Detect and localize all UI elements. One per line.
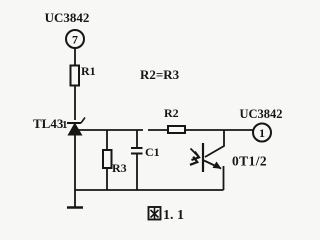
label UC3842 (top-right): [239, 107, 282, 121]
label C1: [145, 145, 160, 159]
optocoupler phototransistor OT1/2: collector wire: [205, 130, 224, 157]
caption figure 1.1: [149, 207, 185, 223]
wire pin7 to R1: [74, 48, 76, 66]
label OT1/2: [232, 154, 267, 169]
resistor R3: [103, 150, 112, 168]
light arrow 2: [190, 157, 197, 165]
wire R1 to TL431 cathode: [74, 86, 76, 121]
svg-text:C1: C1: [145, 145, 160, 159]
wire node to C1: [136, 130, 138, 148]
OT1/2 base bar: [202, 143, 204, 172]
capacitor C1: [131, 148, 143, 154]
main feedback node wire (dash before R2): [148, 129, 168, 131]
svg-text:0T1/2: 0T1/2: [232, 154, 267, 169]
TL431 shunt regulator (zener-style) U2: [67, 118, 85, 136]
svg-text:1: 1: [62, 119, 68, 131]
wire TL431 anode down: [74, 135, 76, 190]
main feedback node wire (left part): [78, 129, 143, 131]
wire node to R3: [106, 130, 108, 150]
resistor R2: [168, 126, 185, 133]
wire R2 to pin 1: [185, 129, 253, 131]
OT1/2 emitter wire down: [223, 166, 225, 190]
bottom rail wire: [75, 189, 224, 191]
label R1: [81, 64, 96, 78]
label TL431: [33, 116, 68, 131]
label R2=R3 equation: [140, 67, 180, 82]
svg-text:R2=R3: R2=R3: [140, 67, 180, 82]
svg-text:7: 7: [72, 33, 78, 47]
svg-text:R3: R3: [112, 161, 127, 175]
svg-text:1. 1: 1. 1: [163, 208, 184, 223]
pin circle 1: [253, 124, 271, 142]
label R3: [112, 161, 127, 175]
ground: [67, 206, 83, 209]
svg-text:UC3842: UC3842: [239, 107, 282, 121]
svg-text:UC3842: UC3842: [45, 10, 90, 25]
svg-text:R1: R1: [81, 64, 96, 78]
label UC3842 (top-left): [45, 10, 90, 25]
resistor R1: [71, 66, 80, 86]
wire C1 to bottom rail: [136, 154, 138, 191]
label R2: [164, 106, 179, 120]
svg-text:1: 1: [259, 126, 265, 140]
light arrow 1: [191, 149, 200, 161]
wire R3 to bottom rail: [106, 168, 108, 190]
OT1/2 emitter with arrow: [204, 161, 222, 169]
ground stem: [74, 190, 76, 207]
pin circle 7: [66, 30, 84, 48]
svg-text:R2: R2: [164, 106, 179, 120]
svg-text:TL43: TL43: [33, 116, 64, 131]
